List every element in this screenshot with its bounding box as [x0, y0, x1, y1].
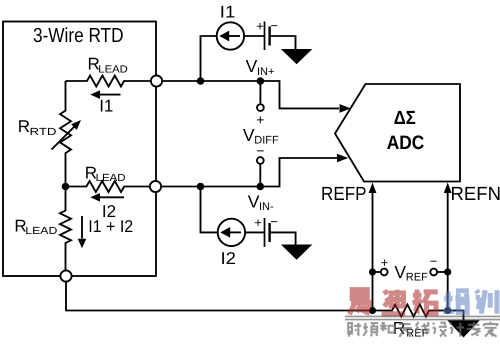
svg-text:I1 + I2: I1 + I2 [88, 217, 133, 236]
svg-text:−: − [270, 214, 278, 229]
svg-text:−: − [256, 142, 264, 158]
svg-text:−: − [430, 254, 438, 269]
svg-text:V: V [248, 191, 260, 211]
svg-text:IN-: IN- [259, 201, 274, 213]
svg-text:+: + [381, 255, 389, 270]
svg-text:+: + [256, 19, 264, 34]
svg-text:V: V [246, 56, 258, 76]
svg-text:ADC: ADC [387, 132, 425, 154]
svg-text:REF: REF [406, 272, 428, 284]
svg-text:RTD: RTD [30, 127, 57, 138]
svg-text:3-Wire RTD: 3-Wire RTD [33, 25, 124, 47]
svg-text:R: R [18, 117, 30, 136]
svg-text:ΔΣ: ΔΣ [394, 108, 416, 129]
svg-text:−: − [270, 18, 278, 33]
svg-text:REFP: REFP [321, 184, 367, 205]
svg-text:+: + [256, 111, 264, 127]
svg-text:V: V [243, 125, 255, 145]
svg-text:LEAD: LEAD [25, 226, 57, 237]
svg-text:+: + [254, 215, 262, 230]
svg-text:I1: I1 [220, 3, 236, 22]
svg-text:V: V [394, 262, 406, 282]
svg-text:I1: I1 [99, 96, 113, 115]
svg-text:REFN: REFN [451, 184, 500, 205]
svg-text:LEAD: LEAD [96, 173, 126, 184]
svg-text:IN+: IN+ [257, 66, 274, 78]
svg-text:LEAD: LEAD [98, 64, 128, 75]
svg-text:I2: I2 [221, 249, 237, 268]
